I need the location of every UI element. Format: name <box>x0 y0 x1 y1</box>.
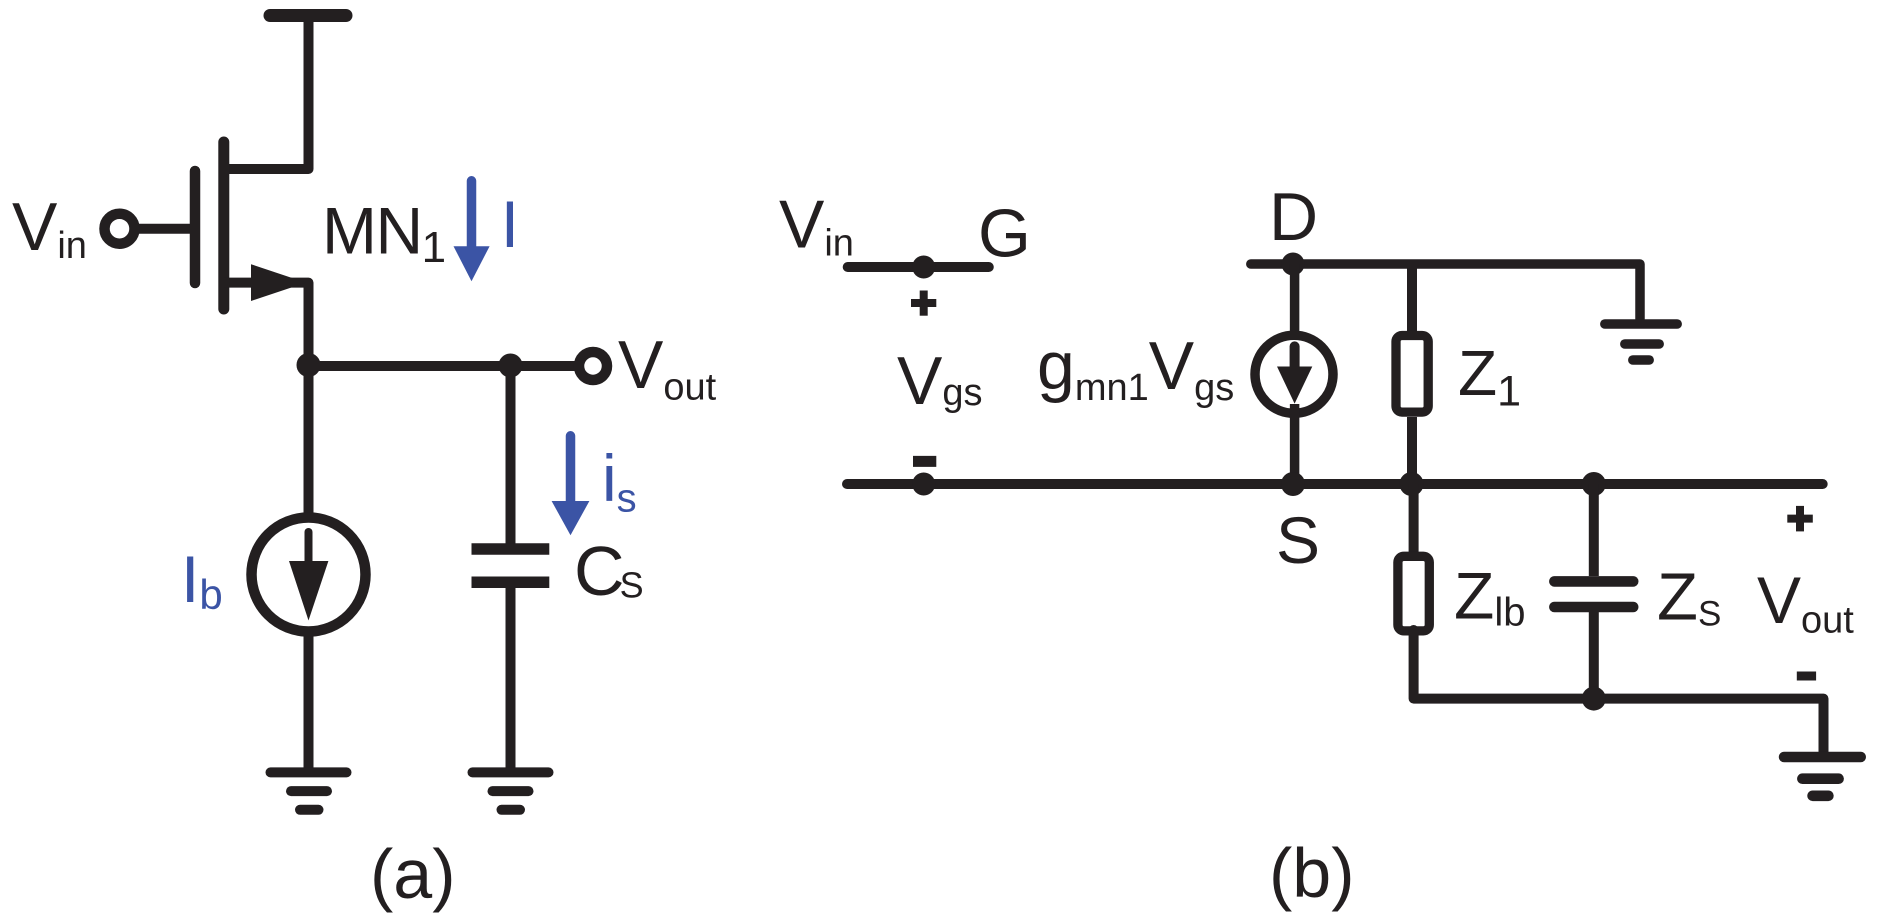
svg-text:D: D <box>1269 179 1318 255</box>
transistor MN1 gate bar <box>190 171 201 283</box>
node Z1/S rail (junction dot) <box>1400 472 1424 496</box>
svg-text:(a): (a) <box>370 835 456 913</box>
wire drain rail D <box>1251 264 1640 319</box>
capacitor ZS <box>1554 576 1633 587</box>
resistor Zlb <box>1398 556 1429 631</box>
svg-text:CS: CS <box>574 532 644 610</box>
current arrow is (blue) <box>552 436 590 536</box>
ground (below CS) <box>473 767 549 777</box>
minus sign (Vout b) <box>1797 672 1816 681</box>
node on gate wire (junction dot) <box>912 256 935 279</box>
svg-text:Vin: Vin <box>12 189 87 267</box>
wire S rail to capacitor ZS <box>1589 484 1599 576</box>
wire gate G <box>848 262 989 272</box>
wire S rail to Zlb <box>1409 484 1419 560</box>
svg-text:S: S <box>1276 503 1320 577</box>
wire Zlb to bottom rail <box>1414 630 1824 752</box>
svg-text:MN1: MN1 <box>322 194 445 273</box>
capacitor CS <box>472 543 550 555</box>
plus sign (Vgs) <box>911 291 936 316</box>
wire CS to ground <box>506 588 516 770</box>
wire node to current source Ib <box>304 365 314 545</box>
source arrow of MN1 <box>251 264 306 301</box>
svg-text:Ib: Ib <box>181 542 223 618</box>
node ZS bottom (junction dot) <box>1582 687 1606 711</box>
wire controlled source to S rail <box>1290 404 1300 484</box>
current arrow I (blue) <box>454 181 490 281</box>
wire drain to VDD <box>224 16 309 170</box>
node D (junction dot) <box>1282 253 1305 276</box>
wire gate <box>136 224 190 234</box>
node source (junction dot) <box>297 353 321 377</box>
wire ZS to bottom rail <box>1589 612 1599 699</box>
svg-text:Vgs: Vgs <box>897 343 983 419</box>
ground (top right) <box>1605 324 1677 360</box>
svg-text:Vout: Vout <box>618 327 717 409</box>
terminal Vout <box>579 352 607 380</box>
VDD supply bar <box>270 9 346 22</box>
current source Ib <box>252 518 366 632</box>
node capacitor tap (junction dot) <box>499 354 523 378</box>
wire node to capacitor CS <box>506 365 516 549</box>
svg-text:is: is <box>602 441 637 520</box>
wire source node to Vout <box>309 361 576 371</box>
svg-text:Zlb: Zlb <box>1454 559 1525 635</box>
ground (bottom right) <box>1784 757 1861 796</box>
svg-text:Z1: Z1 <box>1458 337 1521 415</box>
resistor Z1 <box>1396 336 1428 413</box>
svg-text:I: I <box>501 187 519 261</box>
wire D rail to Z1 <box>1407 264 1417 340</box>
minus sign (Vgs) <box>913 456 936 467</box>
node S on rail (junction dot) <box>1281 472 1305 496</box>
svg-text:ZS: ZS <box>1657 560 1721 635</box>
node ZS tap on S rail (junction dot) <box>1582 472 1606 496</box>
ground (below Ib) <box>271 767 347 777</box>
plus sign (Vout b) <box>1787 506 1813 532</box>
terminal Vin <box>105 214 135 244</box>
node on S rail below minus (junction dot) <box>912 473 935 496</box>
wire Z1 to S rail <box>1407 417 1417 484</box>
transistor MN1 channel bar <box>218 142 229 309</box>
wire Ib to ground <box>304 630 314 770</box>
svg-text:Vout: Vout <box>1757 563 1854 641</box>
svg-text:Vin: Vin <box>779 186 854 264</box>
wire D rail to controlled source <box>1290 264 1300 345</box>
controlled current source gmn1Vgs <box>1255 335 1333 413</box>
wire source rail S <box>847 479 1823 489</box>
svg-text:gmn1Vgs: gmn1Vgs <box>1037 328 1234 409</box>
wire source <box>224 283 309 365</box>
svg-text:G: G <box>978 195 1031 271</box>
svg-text:(b): (b) <box>1269 834 1355 912</box>
